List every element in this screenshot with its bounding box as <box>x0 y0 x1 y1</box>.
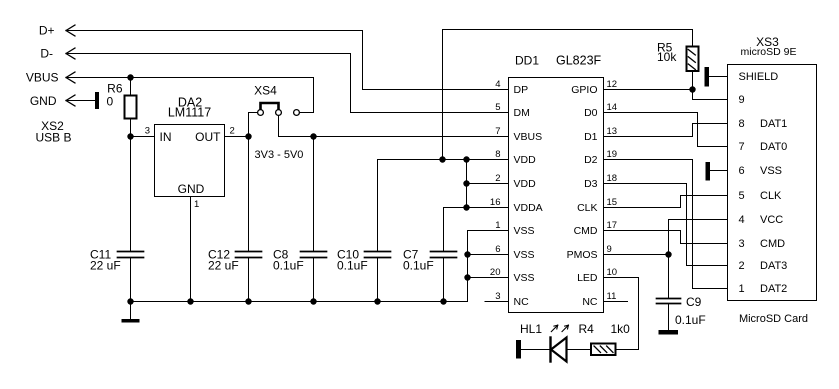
svg-text:13: 13 <box>607 126 618 137</box>
svg-text:0.1uF: 0.1uF <box>337 259 368 273</box>
svg-text:DAT1: DAT1 <box>760 118 787 130</box>
svg-text:5: 5 <box>495 102 500 113</box>
svg-text:8: 8 <box>739 118 745 130</box>
svg-text:12: 12 <box>607 79 618 90</box>
svg-text:8: 8 <box>495 149 500 160</box>
svg-text:GND: GND <box>178 182 205 196</box>
svg-text:GND: GND <box>30 94 57 108</box>
svg-text:DAT0: DAT0 <box>760 141 787 153</box>
svg-text:OUT: OUT <box>195 130 221 144</box>
svg-text:VBUS: VBUS <box>514 131 543 143</box>
svg-text:LED: LED <box>577 272 598 284</box>
svg-text:D-: D- <box>40 47 53 61</box>
svg-text:3V3 - 5V0: 3V3 - 5V0 <box>255 149 304 161</box>
svg-text:CLK: CLK <box>577 202 597 214</box>
svg-text:CLK: CLK <box>760 190 782 202</box>
svg-text:LM1117: LM1117 <box>168 106 211 120</box>
svg-text:9: 9 <box>607 244 612 255</box>
svg-text:0.1uF: 0.1uF <box>403 259 434 273</box>
svg-text:4: 4 <box>495 79 500 90</box>
svg-text:10k: 10k <box>657 50 677 64</box>
svg-text:CMD: CMD <box>760 238 785 250</box>
svg-text:DAT3: DAT3 <box>760 260 787 272</box>
svg-text:VDD: VDD <box>514 178 537 190</box>
svg-text:SHIELD: SHIELD <box>739 71 779 83</box>
svg-text:C9: C9 <box>686 295 702 309</box>
svg-text:VDD: VDD <box>514 154 537 166</box>
svg-text:DM: DM <box>514 107 530 119</box>
svg-text:CMD: CMD <box>574 225 598 237</box>
svg-text:0.1uF: 0.1uF <box>273 259 304 273</box>
svg-text:VSS: VSS <box>514 225 535 237</box>
svg-text:0: 0 <box>107 95 114 109</box>
svg-text:microSD 9E: microSD 9E <box>740 46 796 58</box>
svg-text:16: 16 <box>490 197 501 208</box>
svg-text:1: 1 <box>495 220 500 231</box>
svg-text:DAT2: DAT2 <box>760 283 787 295</box>
svg-text:MicroSD Card: MicroSD Card <box>739 313 808 325</box>
svg-text:VSS: VSS <box>760 165 782 177</box>
svg-text:PMOS: PMOS <box>567 249 598 261</box>
svg-text:6: 6 <box>739 165 745 177</box>
svg-text:GL823F: GL823F <box>556 54 602 68</box>
svg-text:7: 7 <box>739 141 745 153</box>
svg-text:VCC: VCC <box>760 214 783 226</box>
svg-text:3: 3 <box>739 238 745 250</box>
svg-text:6: 6 <box>495 244 500 255</box>
svg-text:USB B: USB B <box>35 131 71 145</box>
svg-text:D0: D0 <box>584 107 598 119</box>
svg-text:GPIO: GPIO <box>571 84 597 96</box>
svg-text:2: 2 <box>495 173 500 184</box>
svg-text:DP: DP <box>514 84 529 96</box>
svg-text:NC: NC <box>582 296 598 308</box>
svg-text:9: 9 <box>739 94 745 106</box>
svg-text:3: 3 <box>495 291 500 302</box>
svg-text:17: 17 <box>607 220 618 231</box>
svg-text:D3: D3 <box>584 178 598 190</box>
svg-text:R4: R4 <box>579 322 595 336</box>
svg-text:15: 15 <box>607 197 618 208</box>
svg-text:3: 3 <box>145 126 150 137</box>
svg-text:VSS: VSS <box>514 249 535 261</box>
svg-text:5: 5 <box>739 190 745 202</box>
svg-text:IN: IN <box>160 130 172 144</box>
svg-text:D1: D1 <box>584 131 598 143</box>
svg-text:HL1: HL1 <box>520 322 542 336</box>
svg-text:19: 19 <box>607 149 618 160</box>
svg-text:2: 2 <box>230 126 235 137</box>
svg-text:NC: NC <box>514 296 530 308</box>
svg-text:1k0: 1k0 <box>611 322 631 336</box>
svg-text:VDDA: VDDA <box>514 202 543 214</box>
svg-text:VSS: VSS <box>514 272 535 284</box>
svg-text:7: 7 <box>495 126 500 137</box>
svg-text:22 uF: 22 uF <box>208 259 239 273</box>
svg-text:18: 18 <box>607 173 618 184</box>
svg-text:2: 2 <box>739 260 745 272</box>
svg-text:1: 1 <box>194 199 199 210</box>
svg-text:20: 20 <box>490 267 501 278</box>
svg-text:XS4: XS4 <box>254 84 277 98</box>
svg-text:14: 14 <box>607 102 618 113</box>
svg-text:1: 1 <box>739 283 745 295</box>
svg-text:22 uF: 22 uF <box>90 259 121 273</box>
svg-text:4: 4 <box>739 214 745 226</box>
svg-text:11: 11 <box>607 291 617 302</box>
svg-text:VBUS: VBUS <box>26 71 59 85</box>
svg-text:10: 10 <box>607 267 618 278</box>
svg-text:D+: D+ <box>39 24 55 38</box>
svg-text:0.1uF: 0.1uF <box>675 313 706 327</box>
svg-text:DD1: DD1 <box>515 54 539 68</box>
svg-text:R6: R6 <box>107 82 123 96</box>
svg-text:D2: D2 <box>584 154 598 166</box>
